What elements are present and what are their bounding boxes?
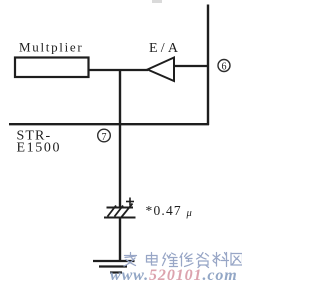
capacitor C (electrolytic, hatched plate)	[104, 204, 136, 218]
op-amp E/A triangle	[148, 58, 175, 82]
svg-text:E/A: E/A	[149, 41, 181, 56]
IC label STR-E1500	[17, 129, 62, 156]
pin 7 circled	[98, 129, 111, 143]
char liao	[213, 253, 229, 267]
char zi	[197, 253, 209, 268]
char wei	[163, 253, 178, 267]
svg-text:E1500: E1500	[17, 141, 62, 156]
svg-text:*0.47 μ: *0.47 μ	[146, 203, 193, 219]
char dian	[147, 253, 158, 266]
top edge smudge	[152, 0, 162, 3]
ground	[93, 261, 135, 273]
svg-text:7: 7	[102, 132, 107, 143]
svg-text:Multplier: Multplier	[19, 40, 83, 55]
char wang	[231, 253, 243, 265]
wire: vertical from node to capacitor	[119, 69, 121, 208]
char xiu	[180, 253, 193, 267]
watermark chinese row (drawn glyphs)	[124, 253, 243, 268]
capacitor plus sign	[126, 198, 134, 206]
wire: multiplier output to E/A input	[88, 69, 148, 71]
svg-text:6: 6	[222, 62, 227, 73]
multiplier block box	[15, 58, 89, 78]
char jia	[124, 253, 137, 267]
wire: right vertical bus from top to horizontal bus	[207, 5, 209, 126]
wire: main horizontal bus	[9, 123, 209, 125]
wire: capacitor to ground	[119, 218, 121, 262]
svg-text:www.520101.com: www.520101.com	[110, 267, 238, 284]
pin 6 circled	[218, 60, 230, 73]
wire: E/A output to right bus	[174, 65, 208, 67]
